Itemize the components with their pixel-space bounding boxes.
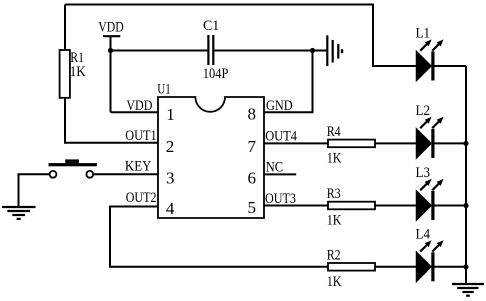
- ground symbol bottom left: [2, 207, 36, 219]
- svg-text:1K: 1K: [327, 150, 342, 166]
- wire R4 to L2: [375, 142, 417, 144]
- capacitor C1 104P: [203, 18, 229, 82]
- wire R2 to L4: [375, 266, 417, 268]
- wire button left to ground: [19, 174, 50, 207]
- wire OUT2 route pin 4 to R2: [110, 207, 328, 267]
- svg-text:1K: 1K: [70, 64, 86, 80]
- LED L2: [416, 103, 444, 158]
- junction dot VDD node: [108, 48, 113, 53]
- IC U1 body with pin-1 notch: [157, 82, 264, 218]
- LED L3: [416, 165, 444, 220]
- wire C1 right plate to signal ground: [214, 50, 326, 52]
- svg-text:6: 6: [248, 168, 257, 187]
- svg-text:R3: R3: [327, 186, 341, 202]
- svg-text:NC: NC: [266, 159, 283, 175]
- wire right bus: [465, 66, 467, 284]
- LED L4: [416, 227, 444, 282]
- svg-text:3: 3: [166, 169, 175, 188]
- wire R3 to L3: [375, 205, 417, 207]
- wire L4 cathode to right bus: [435, 266, 467, 268]
- resistor R3 1K: [327, 186, 375, 229]
- power VDD symbol: [98, 20, 124, 113]
- svg-text:8: 8: [248, 105, 257, 124]
- svg-text:L1: L1: [416, 26, 431, 42]
- resistor R4 1K: [327, 124, 375, 167]
- svg-text:R2: R2: [327, 247, 341, 263]
- svg-text:1K: 1K: [327, 274, 342, 290]
- svg-text:OUT4: OUT4: [265, 129, 297, 145]
- wire L3 cathode to right bus: [435, 205, 467, 207]
- svg-text:5: 5: [248, 198, 257, 217]
- svg-text:OUT1: OUT1: [125, 128, 156, 144]
- junction dot L4 bus: [463, 264, 468, 269]
- wire R1 bottom to IC pin 2 OUT1: [65, 98, 158, 143]
- junction dot L2 bus: [463, 141, 468, 146]
- wire L1 cathode to right bus: [435, 65, 467, 67]
- svg-text:OUT2: OUT2: [126, 190, 157, 206]
- signal ground symbol top right: [327, 35, 342, 66]
- svg-text:C1: C1: [203, 18, 219, 34]
- wire VDD node to C1 left plate: [111, 50, 208, 52]
- wire pin 5 OUT3 to R3: [264, 205, 328, 207]
- wire NC stub pin 6: [264, 173, 296, 175]
- svg-text:2: 2: [166, 137, 175, 156]
- wire IC pin 8 to GND node: [264, 51, 313, 113]
- wire button to IC pin 3 KEY: [93, 173, 158, 175]
- svg-text:1: 1: [166, 105, 175, 124]
- svg-text:7: 7: [248, 137, 257, 156]
- svg-text:104P: 104P: [203, 66, 229, 82]
- resistor R1 1K: [60, 50, 86, 98]
- wire left column rail to R1: [64, 5, 66, 51]
- svg-text:R4: R4: [327, 124, 341, 140]
- LED L1: [416, 26, 444, 81]
- svg-text:GND: GND: [266, 98, 293, 114]
- svg-text:VDD: VDD: [126, 98, 152, 114]
- svg-text:L4: L4: [416, 227, 431, 243]
- svg-text:1K: 1K: [327, 213, 342, 229]
- svg-text:L3: L3: [416, 165, 431, 181]
- wire pin 7 OUT4 to R4: [264, 142, 328, 144]
- wire top rail to L1 anode: [65, 5, 417, 67]
- svg-text:U1: U1: [157, 82, 171, 98]
- wire L2 cathode to right bus: [435, 142, 467, 144]
- svg-text:4: 4: [166, 199, 175, 218]
- ground symbol bottom right: [452, 284, 484, 296]
- wire VDD column to IC pin 1: [111, 111, 159, 113]
- svg-text:L2: L2: [416, 103, 431, 119]
- junction dot L3 bus: [463, 203, 468, 208]
- resistor R2 1K: [327, 247, 375, 290]
- svg-text:VDD: VDD: [98, 20, 124, 36]
- junction dot GND node: [310, 48, 315, 53]
- svg-text:KEY: KEY: [125, 158, 152, 174]
- pushbutton KEY switch: [49, 159, 98, 177]
